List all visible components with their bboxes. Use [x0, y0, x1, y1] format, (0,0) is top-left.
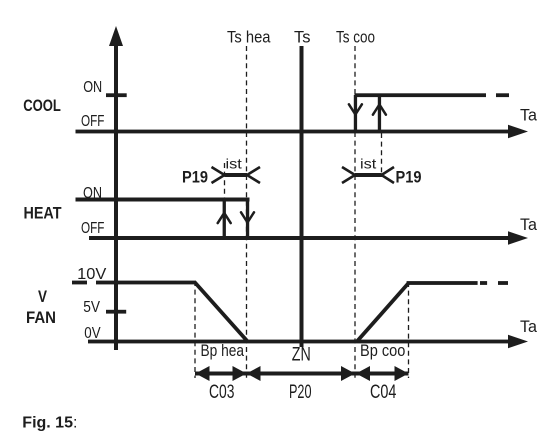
fan up ramp: [357, 283, 408, 341]
fan high line right: [407, 281, 508, 285]
svg-text:ON: ON: [83, 79, 102, 96]
heat step-down arrow at Ts hea: [241, 200, 254, 239]
svg-text:ist: ist: [226, 155, 242, 171]
svg-text:C03: C03: [209, 382, 234, 403]
svg-text:OFF: OFF: [81, 113, 105, 130]
svg-text:P20: P20: [289, 382, 312, 403]
svg-text:Ta: Ta: [520, 105, 538, 124]
dashed line Ts coo: [354, 46, 356, 378]
heat Ta axis: [89, 231, 528, 245]
tick 5V: [106, 310, 126, 314]
svg-text:P19: P19: [396, 168, 422, 187]
svg-text:HEAT: HEAT: [24, 204, 63, 223]
svg-text:Ts: Ts: [294, 29, 311, 47]
dashed line Bp hea left: [194, 281, 196, 378]
svg-text:Ta: Ta: [520, 317, 538, 336]
svg-text:V: V: [38, 287, 48, 306]
svg-text:Fig. 15:: Fig. 15:: [22, 414, 77, 431]
ist dimension cool: [342, 167, 394, 183]
ist dimension heat: [212, 167, 261, 183]
svg-text:Ts coo: Ts coo: [336, 29, 375, 47]
y-axis: [109, 26, 123, 350]
svg-text:10V: 10V: [77, 266, 107, 283]
heat ON signal line: [76, 198, 250, 202]
svg-text:Bp hea: Bp hea: [201, 341, 245, 360]
svg-text:FAN: FAN: [26, 308, 56, 327]
svg-text:Bp coo: Bp coo: [360, 341, 405, 360]
tick ON cool: [106, 93, 127, 97]
svg-text:0V: 0V: [84, 325, 101, 342]
svg-text:ZN: ZN: [292, 345, 311, 366]
cool step-up arrow: [373, 95, 386, 131]
svg-text:OFF: OFF: [81, 220, 105, 237]
heat step-up arrow: [218, 200, 231, 239]
svg-text:Ta: Ta: [520, 215, 538, 234]
fan 10V line: [72, 281, 87, 285]
dashed line Ts hea: [246, 46, 248, 378]
cool step-down arrow at Ts coo: [349, 95, 362, 131]
svg-text:ist: ist: [360, 155, 376, 171]
dimension arrow C04: [355, 366, 409, 381]
fan down ramp: [195, 282, 248, 341]
fan Ta axis: [88, 335, 528, 349]
cool ON signal line: [355, 93, 510, 97]
dashed connector heat hysteresis: [224, 163, 226, 198]
dimension arrow C03: [195, 366, 247, 381]
dashed line Bp coo right: [408, 282, 410, 378]
cool Ta axis: [76, 125, 529, 139]
svg-text:C04: C04: [370, 382, 397, 403]
line Ts: [300, 46, 304, 347]
dashed connector cool hysteresis: [381, 133, 383, 177]
svg-text:Ts hea: Ts hea: [227, 29, 271, 47]
svg-text:P19: P19: [182, 168, 208, 187]
dimension arrow P20: [247, 366, 356, 381]
svg-text:5V: 5V: [83, 299, 100, 316]
svg-text:COOL: COOL: [23, 97, 61, 115]
